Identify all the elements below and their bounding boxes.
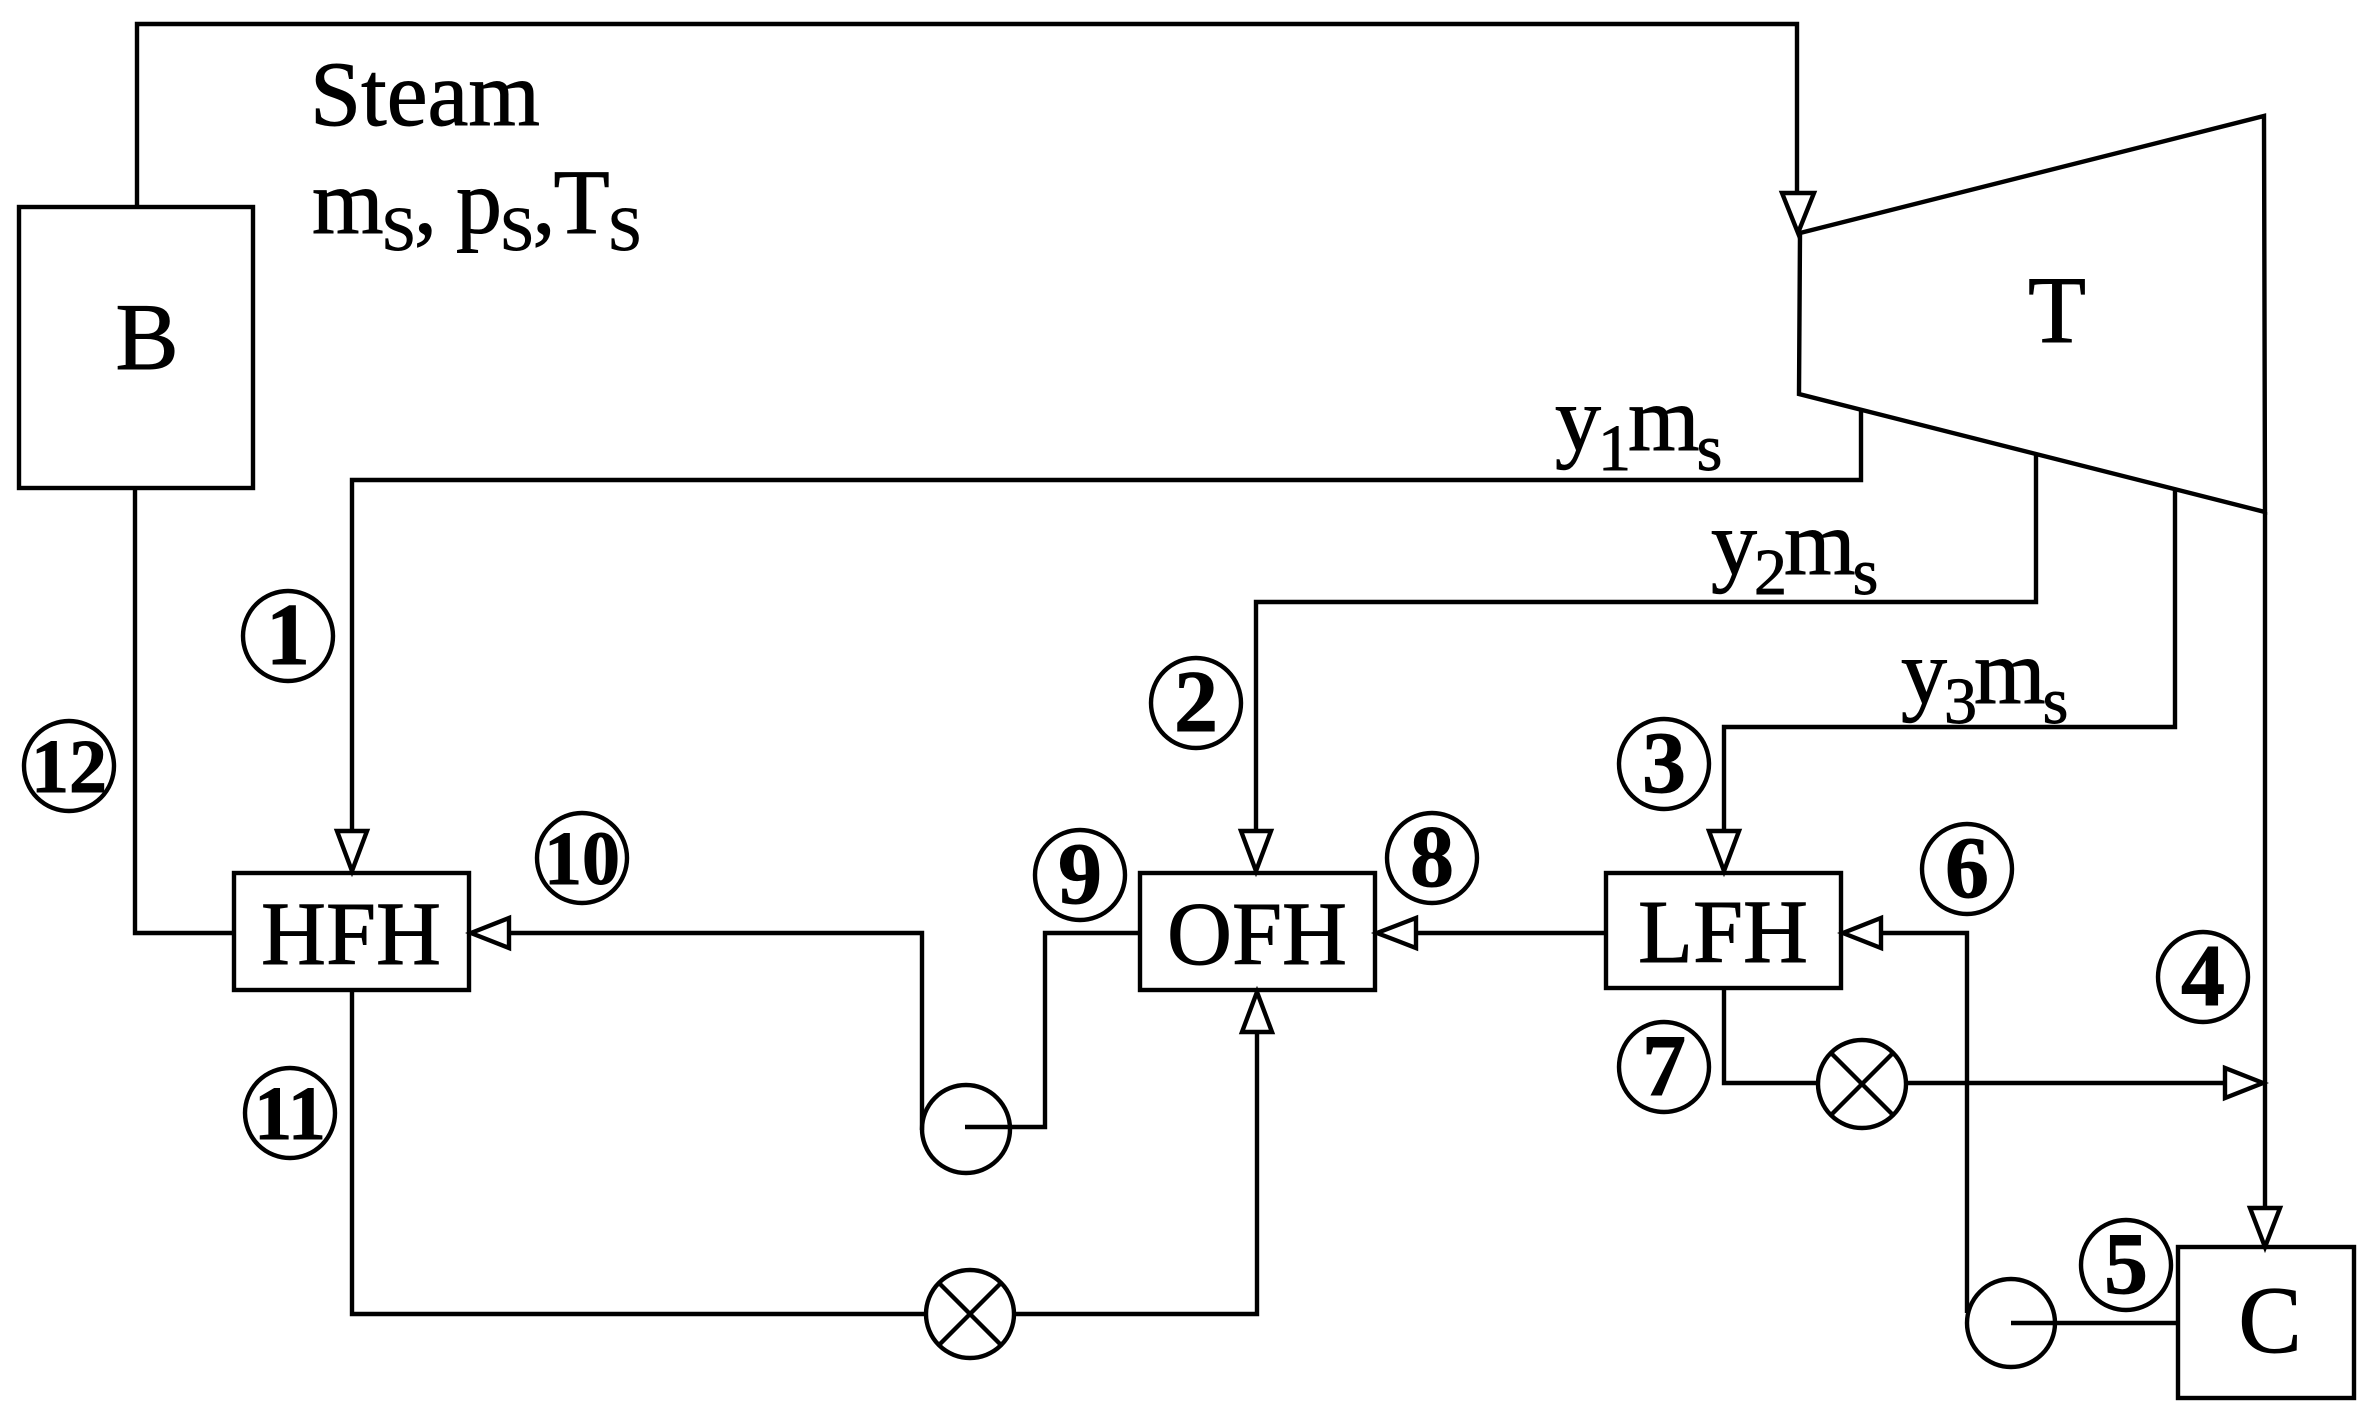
svg-text:mS, pS,TS: mS, pS,TS	[312, 151, 640, 264]
wire extraction y3 from turbine to LFH (node 3)	[1724, 490, 2175, 831]
arrowhead y1 into HFH top	[337, 831, 367, 871]
arrowhead y3 into LFH top	[1709, 831, 1739, 871]
pump feedwater (circle) between OFH and HFH	[922, 1085, 1010, 1173]
node 4	[2158, 932, 2248, 1022]
arrowhead y2 into OFH top	[1241, 831, 1271, 871]
svg-text:12: 12	[31, 725, 107, 809]
arrowhead drain into condenser line	[2225, 1068, 2263, 1098]
svg-text:C: C	[2238, 1267, 2301, 1373]
node 12	[24, 721, 114, 811]
turbine T	[1799, 116, 2265, 512]
wire LFH drain node 7 down and right to valve	[1724, 988, 1818, 1083]
svg-text:y1ms: y1ms	[1555, 368, 1721, 485]
wire feedwater OFH outlet node 9 down to pump	[965, 933, 1140, 1127]
svg-text:y2ms: y2ms	[1711, 492, 1877, 609]
node 7	[1619, 1022, 1709, 1112]
arrowhead node 8 into OFH right	[1377, 918, 1416, 948]
node 5	[2081, 1220, 2171, 1310]
svg-text:LFH: LFH	[1638, 883, 1808, 982]
boiler B	[19, 207, 253, 488]
svg-text:T: T	[2028, 257, 2086, 363]
heater OFH	[1140, 873, 1375, 990]
arrowhead exhaust into condenser C	[2250, 1208, 2280, 1247]
wire feedwater LFH to OFH (node 8)	[1416, 931, 1606, 935]
svg-text:y3ms: y3ms	[1901, 621, 2067, 738]
node 8	[1387, 813, 1477, 903]
svg-text:11: 11	[254, 1072, 326, 1156]
arrowhead drain into OFH bottom	[1242, 992, 1272, 1032]
valve (circle-X) in LFH drain line	[1818, 1040, 1906, 1128]
arrowhead steam into turbine	[1782, 193, 1814, 233]
wire extraction y2 from turbine to OFH (node 2)	[1256, 455, 2036, 831]
node 11	[245, 1068, 335, 1158]
pump condensate (circle) at condenser	[1967, 1279, 2055, 1367]
node 6	[1922, 824, 2012, 914]
heater LFH	[1606, 873, 1841, 988]
svg-text:HFH: HFH	[261, 885, 441, 984]
svg-text:4: 4	[2181, 928, 2225, 1025]
arrowhead node 10 into HFH right	[471, 918, 509, 948]
arrowhead node 6 into LFH right	[1843, 918, 1881, 948]
condenser C	[2178, 1247, 2354, 1398]
heater HFH	[234, 873, 469, 990]
svg-text:6: 6	[1945, 820, 1989, 917]
wire drain from valve to condenser line	[1906, 1081, 2225, 1085]
wire drain from valve up into OFH bottom	[1014, 1032, 1257, 1314]
wire feedwater node 12 from HFH left up to boiler B	[135, 488, 234, 933]
node 3	[1619, 719, 1709, 809]
svg-text:5: 5	[2104, 1216, 2148, 1313]
svg-text:Steam: Steam	[310, 43, 540, 145]
valve (circle-X) in HFH drain line	[926, 1270, 1014, 1358]
svg-text:7: 7	[1642, 1018, 1686, 1115]
node 10	[537, 813, 627, 903]
svg-text:1: 1	[266, 587, 310, 684]
wire main steam line from boiler B to turbine inlet	[137, 24, 1797, 207]
wire HFH drain node 11 down and right to valve	[352, 990, 926, 1314]
svg-text:8: 8	[1410, 809, 1454, 906]
wire condensate node 6 from pump up into LFH right	[1881, 933, 1967, 1313]
svg-text:10: 10	[544, 817, 620, 901]
svg-text:B: B	[115, 284, 178, 390]
svg-text:3: 3	[1642, 715, 1686, 812]
wire pump to condenser C (node 5)	[2011, 1321, 2178, 1325]
wire turbine exhaust to condenser (node 4)	[2263, 512, 2267, 1208]
wire extraction y1 from turbine to HFH (node 1)	[352, 411, 1861, 831]
svg-text:2: 2	[1174, 654, 1218, 751]
wire pump outlet node 10 up and left into HFH right	[509, 933, 922, 1130]
node 1	[243, 591, 333, 681]
svg-text:OFH: OFH	[1167, 885, 1347, 984]
svg-text:9: 9	[1058, 826, 1102, 923]
node 2	[1151, 658, 1241, 748]
node 9	[1035, 830, 1125, 920]
